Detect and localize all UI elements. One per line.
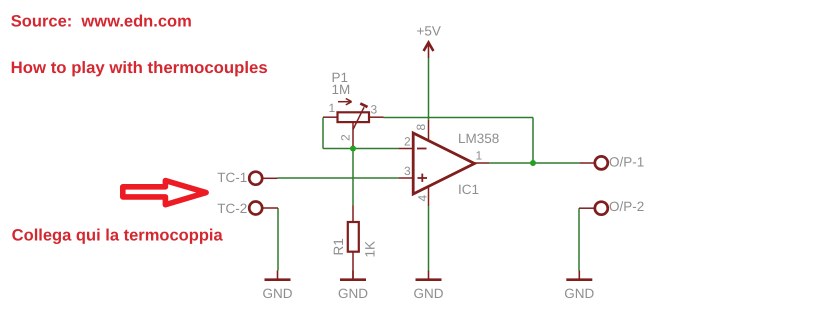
wire junction down to R1 (352, 149, 354, 206)
wire feedback right vertical down to output node (532, 118, 534, 164)
terminal TC-2 (249, 202, 278, 215)
svg-text:1K: 1K (363, 241, 378, 258)
wire pot pin1 left vertical (322, 118, 324, 149)
junction dot B (output / feedback) (530, 160, 536, 166)
annotation big red arrow (123, 181, 206, 205)
svg-text:Source: www.edn.com: Source: www.edn.com (11, 13, 192, 31)
wire op-amp pin 4 down to GND (428, 206, 430, 271)
wire op-amp output to O/P-1 (489, 162, 579, 164)
svg-text:Collega qui la termocoppia: Collega qui la termocoppia (12, 227, 224, 245)
ground symbol 1 (TC-2) (265, 271, 291, 280)
op-amp U1 LM358 (398, 120, 489, 206)
+5V supply symbol (424, 43, 434, 59)
wire pot left horizontal to junction (323, 148, 353, 150)
potentiometer P1 (323, 99, 384, 147)
svg-text:IC1: IC1 (458, 182, 479, 197)
svg-text:4: 4 (416, 195, 430, 202)
svg-text:TC-2: TC-2 (217, 201, 247, 216)
resistor R1 (348, 206, 359, 280)
wire TC-2 down to GND (277, 208, 279, 271)
svg-text:2: 2 (404, 135, 411, 149)
svg-text:1: 1 (476, 149, 483, 163)
wire O/P-2 down to GND (578, 208, 580, 270)
svg-text:3: 3 (404, 164, 411, 178)
svg-text:+5V: +5V (417, 24, 441, 39)
wire TC-1 to op-amp pin 3 (278, 177, 399, 179)
svg-text:8: 8 (414, 124, 428, 131)
terminal O/P-2 (579, 202, 608, 215)
svg-text:LM358: LM358 (458, 131, 499, 146)
ground symbol 2 (R1) (340, 271, 366, 280)
wire feedback top horizontal (pot pin3 to right corner) (384, 117, 534, 119)
junction dot A (pot wiper / pin2 / R1) (350, 146, 356, 152)
svg-text:GND: GND (414, 286, 444, 301)
terminal O/P-1 (579, 156, 608, 169)
svg-text:R1: R1 (331, 238, 346, 255)
svg-text:2: 2 (339, 134, 353, 141)
svg-text:3: 3 (371, 103, 378, 117)
ground symbol 4 (O/P-2) (566, 271, 592, 280)
svg-text:O/P-2: O/P-2 (609, 199, 644, 214)
terminal TC-1 (249, 172, 277, 185)
ground symbol 3 (op-amp pin 4) (416, 271, 442, 280)
wire +5V vertical to pin 8 (428, 58, 430, 120)
svg-text:1: 1 (329, 101, 336, 115)
svg-text:TC-1: TC-1 (217, 170, 247, 185)
svg-text:How to play with thermocouples: How to play with thermocouples (11, 59, 268, 77)
wire junction to op-amp pin 2 (353, 148, 398, 150)
svg-text:GND: GND (338, 286, 368, 301)
svg-text:GND: GND (564, 286, 594, 301)
svg-text:O/P-1: O/P-1 (609, 154, 644, 169)
svg-text:GND: GND (263, 286, 293, 301)
svg-text:1M: 1M (332, 82, 351, 97)
